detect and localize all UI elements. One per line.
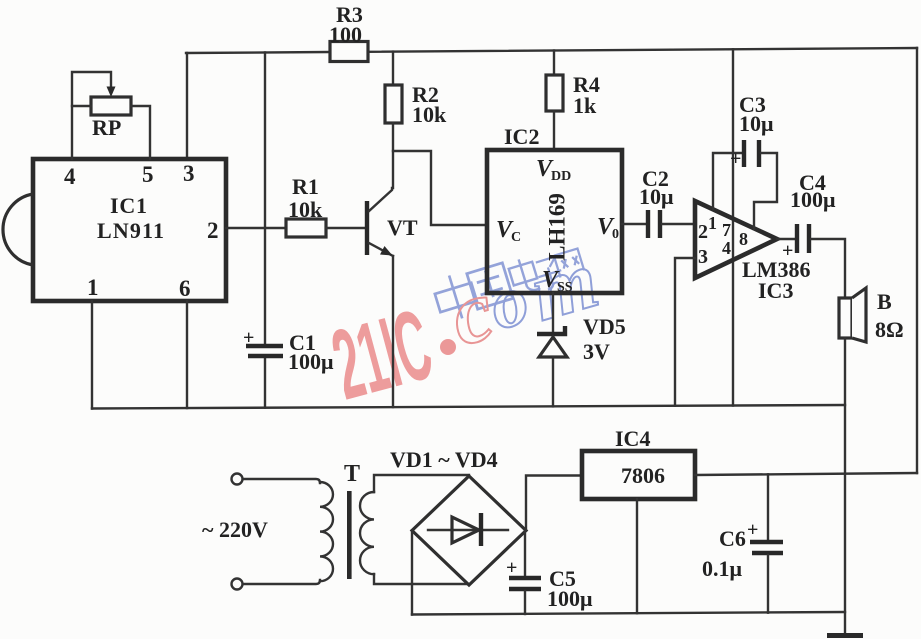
capacitor C5 plate top bbox=[509, 576, 541, 580]
svg-text:100μ: 100μ bbox=[288, 349, 334, 374]
wire top rail bbox=[186, 48, 917, 53]
wire secondary bottom bbox=[374, 574, 469, 584]
svg-text:VD5: VD5 bbox=[583, 314, 626, 339]
svg-text:8Ω: 8Ω bbox=[875, 317, 904, 342]
wire branch to IC2 VC bbox=[393, 151, 487, 225]
svg-text:+: + bbox=[782, 240, 793, 262]
RP wiper arrow bbox=[107, 87, 116, 98]
svg-text:0.1μ: 0.1μ bbox=[702, 556, 743, 581]
bridge rectifier VD1-VD4 diamond bbox=[412, 476, 526, 585]
speaker B horn bbox=[852, 288, 866, 342]
svg-text:VT: VT bbox=[387, 215, 418, 240]
VT emitter arrow bbox=[380, 246, 393, 256]
transformer core bbox=[347, 491, 352, 579]
wire right edge drop bbox=[916, 48, 918, 473]
svg-text:1: 1 bbox=[708, 213, 717, 233]
svg-text:C6: C6 bbox=[719, 526, 746, 551]
wire R4 top bbox=[553, 51, 555, 76]
svg-text:+: + bbox=[730, 148, 741, 170]
wire C6 to rail bbox=[767, 555, 769, 613]
svg-text:1k: 1k bbox=[573, 93, 597, 118]
wire pin 2 to R1 bbox=[226, 227, 286, 229]
wire C4 to speaker bbox=[811, 239, 845, 298]
svg-text:7: 7 bbox=[722, 220, 731, 240]
wire IC4 ground pin bbox=[636, 499, 638, 613]
watermark blue chinese text 中国电子网 bbox=[431, 248, 584, 323]
resistor R1 bbox=[286, 219, 326, 237]
svg-text:B: B bbox=[877, 289, 892, 314]
wire C1 branch bbox=[264, 53, 266, 408]
capacitor C1 plate bottom bbox=[248, 354, 283, 358]
wire R2 top bbox=[392, 52, 394, 85]
wire LM386 supply/ground line bbox=[732, 49, 734, 405]
wire IC1 pin3 drop bbox=[186, 53, 188, 159]
svg-text:VD1 ~ VD4: VD1 ~ VD4 bbox=[390, 447, 498, 472]
svg-text:IC4: IC4 bbox=[615, 426, 650, 451]
op-amp IC3 LM386 triangle bbox=[695, 201, 777, 278]
svg-text:3: 3 bbox=[183, 161, 195, 186]
svg-text:8: 8 bbox=[739, 229, 748, 249]
wire C6 top bbox=[767, 474, 769, 540]
potentiometer RP bbox=[91, 97, 131, 115]
wire IC4 output bbox=[695, 473, 917, 475]
svg-text:+: + bbox=[243, 327, 254, 349]
wire C3 right loop bbox=[754, 153, 777, 229]
svg-text:0: 0 bbox=[612, 227, 619, 242]
terminal bottom circle bbox=[232, 579, 243, 590]
IC1 box bbox=[33, 159, 226, 301]
svg-text:4: 4 bbox=[722, 238, 731, 258]
zener VD5 triangle bbox=[539, 337, 567, 357]
svg-text:RP: RP bbox=[92, 115, 121, 140]
wire RP left terminal bbox=[72, 105, 91, 107]
IC1 lens bump bbox=[3, 194, 33, 265]
wire mains bottom bbox=[243, 580, 320, 584]
wire LM386 output bbox=[777, 238, 795, 240]
bridge inner wire bbox=[428, 529, 508, 531]
svg-text:T: T bbox=[344, 461, 360, 487]
wire RP loop from pin 4 bbox=[72, 72, 111, 159]
svg-text:10μ: 10μ bbox=[739, 111, 774, 136]
svg-text:3: 3 bbox=[698, 246, 708, 268]
svg-text:C: C bbox=[511, 230, 521, 245]
wire R2 bottom to collector bbox=[392, 123, 394, 188]
svg-text:IC1: IC1 bbox=[110, 193, 147, 218]
resistor R2 bbox=[385, 85, 402, 123]
watermark red period bbox=[440, 339, 456, 355]
wire R1 to VT base bbox=[326, 227, 365, 229]
IC2 box bbox=[487, 150, 622, 293]
wire bridge plus up to IC4 bbox=[526, 476, 582, 531]
wire V0 to C2 bbox=[622, 223, 646, 225]
svg-text:7806: 7806 bbox=[621, 463, 665, 488]
resistor R4 bbox=[546, 75, 563, 111]
svg-text:100μ: 100μ bbox=[547, 586, 593, 611]
svg-text:DD: DD bbox=[551, 169, 571, 184]
transformer T secondary coil bbox=[360, 492, 374, 574]
wire R4 to IC2 VDD bbox=[553, 111, 555, 150]
watermark outline com bbox=[440, 233, 608, 365]
svg-text:IC3: IC3 bbox=[758, 278, 793, 303]
ground symbol bbox=[827, 633, 863, 638]
svg-text:2: 2 bbox=[698, 221, 708, 243]
wire IC1 pin6 drop bbox=[186, 301, 188, 408]
svg-text:+: + bbox=[747, 519, 758, 541]
wire speaker down to ground bbox=[844, 338, 846, 634]
svg-text:21IC: 21IC bbox=[322, 289, 443, 421]
bridge diode triangle bbox=[452, 517, 479, 543]
transistor VT base bar bbox=[365, 201, 369, 255]
capacitor C3 plates bbox=[744, 140, 759, 167]
svg-text:+: + bbox=[506, 557, 517, 579]
svg-text:6: 6 bbox=[179, 276, 191, 301]
wire C3 left loop bbox=[713, 153, 742, 209]
svg-text:100: 100 bbox=[329, 22, 362, 47]
svg-text:100μ: 100μ bbox=[790, 187, 836, 212]
wire pin3 to ground bbox=[675, 258, 695, 406]
watermark red 21IC bbox=[322, 289, 443, 421]
wire VT emitter drop bbox=[392, 256, 394, 407]
wire VSS down bbox=[552, 293, 554, 333]
wire VD5 to bus bbox=[552, 357, 554, 406]
label VSS bbox=[542, 267, 573, 295]
svg-text:R1: R1 bbox=[292, 174, 319, 199]
wire IC1 pin1 drop bbox=[91, 301, 93, 409]
wire C5 to rail bbox=[524, 591, 526, 614]
IC4 box bbox=[582, 451, 695, 499]
resistor R3 bbox=[330, 42, 368, 62]
terminal top circle bbox=[232, 474, 243, 485]
capacitor C5 plate bottom bbox=[509, 587, 541, 591]
label V0 bbox=[597, 214, 619, 242]
svg-text:LN911: LN911 bbox=[97, 218, 164, 243]
label VDD bbox=[536, 156, 571, 184]
svg-text:4: 4 bbox=[64, 164, 76, 189]
bridge diode bar bbox=[479, 513, 483, 546]
VT emitter bbox=[369, 243, 393, 256]
svg-text:1: 1 bbox=[87, 275, 99, 300]
svg-text:10k: 10k bbox=[288, 197, 323, 222]
svg-text:10μ: 10μ bbox=[639, 184, 674, 209]
zener VD5 bar bbox=[537, 326, 565, 334]
wire ground bus bbox=[92, 405, 845, 409]
VT collector bbox=[369, 188, 392, 211]
label VC bbox=[496, 217, 521, 245]
capacitor C2 plates bbox=[648, 210, 660, 238]
svg-text:LH169: LH169 bbox=[545, 193, 570, 261]
svg-text:SS: SS bbox=[557, 280, 573, 295]
capacitor C6 plate bottom bbox=[752, 551, 783, 555]
svg-text:~ 220V: ~ 220V bbox=[202, 517, 268, 542]
transformer T primary coil bbox=[320, 482, 333, 581]
speaker B box bbox=[839, 298, 852, 338]
wire bridge minus to rail bbox=[411, 531, 413, 615]
wire mains top bbox=[243, 479, 320, 483]
svg-text:10k: 10k bbox=[412, 102, 447, 127]
wire C2 to pin2 bbox=[662, 223, 695, 225]
svg-text:5: 5 bbox=[142, 162, 154, 187]
capacitor C4 plates bbox=[797, 224, 809, 253]
svg-text:3V: 3V bbox=[583, 339, 610, 364]
svg-text:2: 2 bbox=[207, 218, 219, 243]
wire secondary top bbox=[374, 475, 469, 492]
wire RP right terminal to pin 5 bbox=[131, 106, 150, 159]
svg-text:IC2: IC2 bbox=[504, 124, 539, 149]
capacitor C6 plate top bbox=[750, 540, 783, 544]
wire bottom rail bbox=[412, 612, 845, 615]
wire bridge plus down to C5 bbox=[524, 531, 526, 577]
capacitor C1 plate top bbox=[246, 344, 283, 348]
